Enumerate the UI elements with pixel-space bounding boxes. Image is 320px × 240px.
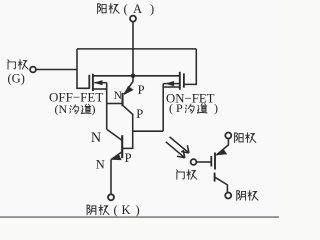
wire OFF-FET drain stub <box>93 75 133 77</box>
label (P channel) <box>169 101 218 115</box>
svg-text:P: P <box>136 107 143 121</box>
svg-text:): ) <box>150 2 154 16</box>
svg-text:(N: (N <box>55 102 68 116</box>
MCT gate circle <box>191 159 197 165</box>
svg-text:ON−FET: ON−FET <box>166 91 215 105</box>
ON-FET body arrowhead <box>165 81 174 86</box>
node anode junction dot <box>131 74 136 79</box>
svg-text:P: P <box>138 83 145 97</box>
svg-text:N: N <box>96 158 105 172</box>
svg-text:): ) <box>92 102 96 116</box>
wire ON-FET source stub <box>163 86 180 88</box>
OFF-FET Q1 channel bar <box>92 74 94 91</box>
ON-FET Q2 channel bar <box>179 72 181 90</box>
label anode CJK 阳极 <box>98 4 119 14</box>
PNP V1 emitter with arrow <box>124 76 133 94</box>
wire right drain stub <box>133 75 180 77</box>
PNP V1 collector path <box>123 106 133 149</box>
wire anode vertical <box>132 22 134 76</box>
equivalence double arrow <box>170 137 190 153</box>
NPN V2 base bar <box>121 135 123 158</box>
wire MCT gate lead <box>197 161 212 163</box>
label MCT anode 阳极 <box>235 133 256 143</box>
MCT cathode circle <box>225 193 231 199</box>
svg-text:(G): (G) <box>8 72 25 86</box>
wire PNP base lead <box>107 103 122 105</box>
svg-text:): ) <box>214 101 218 115</box>
OFF-FET Q1 gate bar <box>88 75 90 89</box>
MCT lower bar <box>214 173 216 182</box>
wire NPN base lead to ON-FET <box>133 130 164 132</box>
wire gate lead from G <box>36 69 77 71</box>
cathode terminal circle K <box>108 194 114 200</box>
svg-text:N: N <box>91 130 101 146</box>
wire gate top rail <box>77 48 196 50</box>
wire OFF-FET source stub <box>93 88 107 90</box>
PNP V1 base bar <box>121 93 123 106</box>
label gate CJK 门极 <box>8 60 28 69</box>
wire gate rail left drop <box>77 49 89 88</box>
MCT symbol anode circle <box>225 133 231 139</box>
wire OFF-FET net vertical <box>106 83 108 130</box>
MCT anode arrowhead <box>216 149 227 155</box>
svg-text:(: ( <box>169 101 173 115</box>
OFF-FET body arrowhead <box>94 80 103 85</box>
anode terminal circle <box>130 16 136 22</box>
label (N channel) <box>55 102 96 116</box>
wire gate rail right drop <box>184 49 196 85</box>
label MCT gate 门极 <box>177 170 197 179</box>
svg-text:P: P <box>176 101 183 115</box>
MCT gate bar <box>210 156 212 167</box>
wire ON-FET net vertical <box>162 84 164 132</box>
svg-text:N: N <box>114 90 122 102</box>
svg-text:P: P <box>125 151 132 165</box>
label cathode CJK 阴极 (K) <box>87 205 109 215</box>
OFF-FET body arrow line <box>95 82 107 84</box>
svg-text:(: ( <box>124 2 128 16</box>
svg-text:A: A <box>133 2 142 16</box>
svg-text:K: K <box>122 203 131 217</box>
ON-FET body arrow line <box>163 83 180 85</box>
MCT main bar <box>214 153 216 170</box>
svg-text:(: ( <box>114 203 118 217</box>
wire MCT anode lead <box>216 139 228 156</box>
wire MCT cathode lead <box>215 177 227 192</box>
label MCT cathode 阴极 <box>237 191 258 201</box>
ON-FET Q2 gate bar <box>183 73 185 87</box>
NPN V2 emitter with arrow <box>111 152 122 160</box>
svg-text:): ) <box>136 203 140 217</box>
wire cathode vertical <box>110 160 112 195</box>
NPN V2 collector diagonal <box>107 129 122 140</box>
gate terminal circle G <box>30 67 36 73</box>
bottom frame line <box>0 216 279 218</box>
